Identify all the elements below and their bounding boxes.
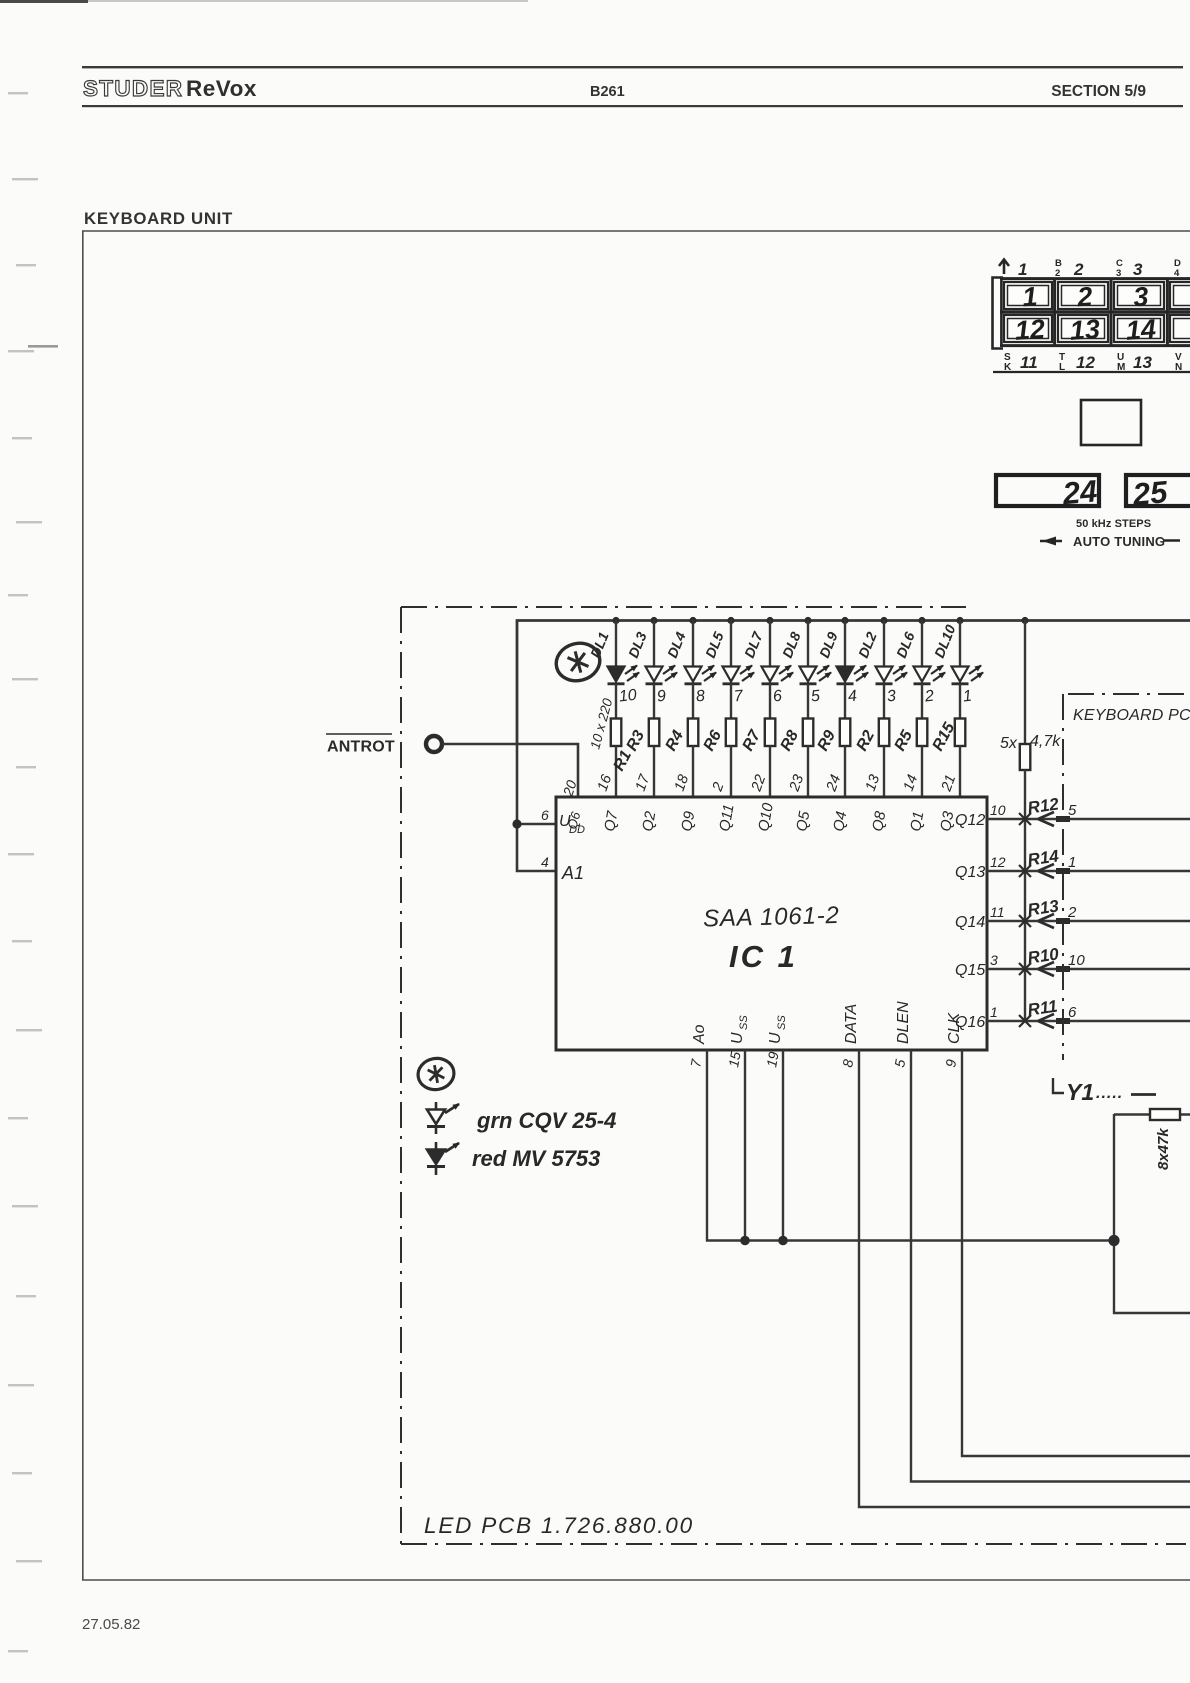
svg-text:R12: R12 [1026, 794, 1060, 817]
svg-text:27.05.82: 27.05.82 [82, 1616, 140, 1633]
key 12 (row 2 col 1) [1004, 315, 1052, 342]
LED PCB boundary (dash-dot) left [400, 607, 402, 1544]
svg-text:5: 5 [810, 688, 821, 706]
svg-text:.....: ..... [1096, 1085, 1123, 1102]
legend red LED symbol [427, 1142, 459, 1175]
svg-text:4,7k: 4,7k [1030, 733, 1061, 750]
svg-text:DL3: DL3 [625, 629, 650, 660]
svg-text:9: 9 [656, 688, 667, 706]
svg-text:ANTROT: ANTROT [327, 739, 395, 756]
LED DL10 with resistor R15, pin 21 [952, 620, 984, 796]
svg-text:14: 14 [1125, 314, 1157, 346]
LED DL5 with resistor R6, pin 2 [723, 620, 755, 796]
node bus junction 9 [918, 617, 925, 624]
svg-text:14: 14 [901, 773, 922, 794]
svg-text:8x47k: 8x47k [1155, 1128, 1172, 1170]
svg-text:R1: R1 [611, 748, 636, 774]
svg-text:R2: R2 [854, 728, 879, 754]
keypad left bracket [993, 278, 1004, 349]
svg-text:18: 18 [672, 773, 693, 794]
svg-text:Q1: Q1 [907, 810, 927, 833]
svg-text:2: 2 [1073, 260, 1084, 279]
svg-text:3: 3 [1132, 281, 1149, 312]
keypad grid frame [1000, 278, 1190, 346]
connector contact arrow [1038, 864, 1054, 878]
svg-text:12: 12 [1014, 314, 1046, 346]
svg-text:19: 19 [763, 1050, 781, 1068]
scan artifact: dark strip top-left [0, 0, 88, 3]
svg-text:Q15: Q15 [955, 962, 985, 979]
svg-text:13: 13 [1069, 314, 1101, 346]
header bottom rule [82, 105, 1183, 107]
svg-text:3: 3 [990, 952, 998, 968]
svg-text:12: 12 [1076, 353, 1095, 372]
resistor 5x4.7k column [1024, 620, 1026, 744]
svg-text:Q10: Q10 [755, 801, 777, 833]
svg-text:8: 8 [695, 688, 706, 706]
junction dot [778, 1236, 788, 1246]
svg-text:8: 8 [839, 1058, 856, 1069]
key 1 (row 1 col 1) [1004, 282, 1052, 309]
LED DL8 with resistor R8, pin 23 [800, 620, 832, 796]
key 13 (row 2 col 2) [1058, 315, 1108, 342]
svg-text:10: 10 [1068, 952, 1085, 969]
wire Q16 row [987, 1020, 1190, 1022]
LED DL7 with resistor R7, pin 22 [762, 620, 794, 796]
key edge (row 2 col 4) [1170, 315, 1190, 342]
svg-text:4: 4 [541, 854, 549, 870]
svg-text:1: 1 [962, 688, 973, 706]
svg-text:Q12: Q12 [955, 812, 985, 829]
junction X mark [1019, 915, 1031, 927]
svg-text:DL6: DL6 [893, 629, 918, 660]
junction X mark [1019, 963, 1031, 975]
svg-text:grn CQV 25-4: grn CQV 25-4 [476, 1108, 616, 1133]
svg-text:6: 6 [1068, 1004, 1077, 1021]
resistor 8x47k [1114, 1113, 1190, 1115]
key 3 (row 1 col 3) [1114, 282, 1164, 309]
connector contact arrow [1038, 1014, 1054, 1028]
svg-text:AUTO TUNING: AUTO TUNING [1073, 534, 1165, 549]
junction dot pin6 branch [512, 819, 521, 828]
svg-text:R7: R7 [740, 727, 765, 754]
svg-text:IC 1: IC 1 [729, 939, 798, 974]
wire USS (pin19) [782, 1050, 784, 1240]
svg-text:2: 2 [1075, 281, 1093, 312]
svg-text:2: 2 [923, 688, 935, 706]
terminal circle ANTROT [426, 736, 442, 752]
svg-text:R4: R4 [663, 728, 688, 754]
svg-text:R10: R10 [1026, 944, 1060, 967]
svg-text:red MV 5753: red MV 5753 [472, 1146, 600, 1171]
svg-text:KEYBOARD UNIT: KEYBOARD UNIT [84, 209, 233, 228]
svg-text:KEYBOARD PCB: KEYBOARD PCB [1073, 707, 1190, 724]
svg-text:SAA 1061-2: SAA 1061-2 [703, 902, 840, 933]
node bus junction 2 [650, 617, 657, 624]
supply bus wire (top) [517, 621, 1190, 745]
svg-text:STUDER: STUDER [83, 76, 183, 101]
svg-text:R9: R9 [815, 728, 840, 754]
wire Q13 row [987, 870, 1190, 872]
junction X mark [1019, 1015, 1031, 1027]
svg-text:Q4: Q4 [830, 810, 850, 833]
svg-text:25: 25 [1130, 474, 1169, 512]
LED PCB boundary (dash-dot) top [401, 606, 966, 608]
svg-text:50 kHz STEPS: 50 kHz STEPS [1076, 518, 1151, 530]
key edge (row 1 col 4) [1170, 282, 1190, 309]
junction X mark [1019, 813, 1031, 825]
svg-text:DL5: DL5 [702, 629, 727, 660]
node bus junction 6 [804, 617, 811, 624]
svg-text:U: U [729, 1032, 746, 1044]
svg-text:DATA: DATA [843, 1004, 860, 1044]
svg-text:6: 6 [772, 688, 783, 706]
junction dot [1108, 1235, 1119, 1246]
LED DL4 with resistor R4, pin 18 [685, 620, 717, 796]
svg-text:7: 7 [733, 688, 745, 706]
svg-text:DL8: DL8 [779, 629, 804, 660]
connector contact arrow [1038, 962, 1054, 976]
svg-text:DL9: DL9 [816, 629, 841, 660]
svg-text:R14: R14 [1026, 846, 1060, 869]
svg-text:Y1: Y1 [1066, 1079, 1094, 1105]
svg-text:DL7: DL7 [741, 628, 766, 660]
svg-text:17: 17 [633, 772, 654, 794]
node bus junction 3 [689, 617, 696, 624]
svg-text:1: 1 [1021, 281, 1038, 312]
svg-text:15: 15 [725, 1050, 743, 1068]
wire DATA (pin8) [859, 1050, 1190, 1507]
header top rule [82, 66, 1183, 68]
svg-text:Q11: Q11 [716, 803, 737, 833]
node bus junction 1 [612, 617, 619, 624]
keypad underline [993, 371, 1190, 373]
svg-text:Q13: Q13 [955, 864, 985, 881]
wire USS (pin15) [744, 1050, 746, 1240]
wire CLK (pin9) [962, 1050, 1190, 1456]
svg-text:2: 2 [1067, 904, 1077, 921]
svg-text:Q16: Q16 [955, 1014, 985, 1031]
node bus junction 4 [727, 617, 734, 624]
corner + Y1 label [1053, 1078, 1064, 1093]
wire ANTROT to IC pin 20 [443, 744, 579, 796]
node bus junction 4.7k [1021, 617, 1028, 624]
svg-text:11: 11 [990, 904, 1005, 920]
LED DL6 with resistor R5, pin 14 [914, 620, 946, 796]
connector contact arrow [1038, 812, 1054, 826]
svg-text:21: 21 [938, 773, 959, 795]
LED PCB boundary (dash-dot) bottom [401, 1543, 1186, 1545]
svg-text:Q14: Q14 [955, 914, 985, 931]
sheet border box [83, 231, 1190, 1580]
svg-text:LED PCB 1.726.880.00: LED PCB 1.726.880.00 [424, 1513, 694, 1538]
connector contact arrow [1038, 914, 1054, 928]
svg-text:A1: A1 [561, 863, 584, 883]
svg-text:SS: SS [776, 1015, 788, 1030]
svg-text:5: 5 [891, 1058, 908, 1069]
LED DL1 with resistor R1, pin 16 [608, 620, 640, 796]
svg-text:Q9: Q9 [678, 809, 698, 832]
svg-text:DLEN: DLEN [895, 1001, 912, 1044]
wire Q12 row [987, 818, 1190, 820]
wire Q15 row [987, 968, 1190, 970]
LED DL9 with resistor R9, pin 24 [837, 620, 869, 796]
svg-text:3: 3 [1133, 260, 1143, 279]
caption AUTO TUNING with arrow [1040, 540, 1062, 543]
svg-text:DL2: DL2 [855, 629, 880, 660]
svg-text:24: 24 [823, 773, 844, 795]
wire DLEN (pin5) [911, 1050, 1190, 1482]
svg-text:9: 9 [942, 1058, 959, 1069]
svg-text:3: 3 [886, 688, 897, 706]
svg-text:Q8: Q8 [869, 809, 889, 832]
svg-text:R8: R8 [778, 728, 803, 754]
key 2 (row 1 col 2) [1058, 282, 1108, 309]
wire A0 (pin7) down and right [707, 1050, 1114, 1241]
svg-text:1: 1 [1018, 260, 1027, 279]
svg-text:B261: B261 [590, 84, 625, 100]
svg-text:R6: R6 [701, 728, 726, 754]
svg-text:5: 5 [1068, 802, 1077, 819]
svg-text:U: U [767, 1032, 784, 1044]
svg-text:23: 23 [786, 773, 807, 795]
svg-text:R13: R13 [1026, 896, 1060, 919]
key 25 box [1126, 475, 1190, 506]
LED DL3 with resistor R3, pin 17 [646, 620, 678, 796]
svg-text:10: 10 [618, 687, 638, 706]
svg-text:5x: 5x [1000, 735, 1018, 752]
circled asterisk marker (at DL1) [552, 638, 604, 685]
node bus junction 10 [956, 617, 963, 624]
legend green LED symbol [427, 1102, 459, 1134]
svg-text:13: 13 [863, 773, 884, 794]
wire 8x47k column [1114, 1114, 1190, 1313]
key column header: arrow up [999, 260, 1009, 275]
circled asterisk marker (legend) [416, 1056, 457, 1093]
svg-text:SECTION 5/9: SECTION 5/9 [1051, 83, 1146, 100]
op IC1 SAA 1061-2 body [556, 797, 987, 1050]
svg-text:1: 1 [990, 1004, 998, 1020]
logo STUDER REVOX [83, 76, 257, 101]
svg-text:6: 6 [541, 807, 549, 823]
wire UDD branch [517, 744, 556, 871]
svg-text:DL10: DL10 [931, 622, 959, 660]
svg-text:Ao: Ao [691, 1024, 708, 1045]
svg-text:7: 7 [687, 1057, 704, 1069]
junction X mark [1019, 865, 1031, 877]
svg-text:SS: SS [738, 1015, 750, 1030]
svg-text:24: 24 [1060, 473, 1098, 511]
KEYBOARD PCB boundary (dash-dot) [1062, 694, 1064, 1060]
svg-text:12: 12 [990, 854, 1006, 870]
svg-text:R3: R3 [624, 728, 649, 754]
key 14 (row 2 col 3) [1114, 315, 1164, 342]
svg-text:2: 2 [709, 780, 727, 794]
node bus junction 5 [766, 617, 773, 624]
wire Q14 row [987, 920, 1190, 922]
svg-text:R5: R5 [892, 727, 917, 754]
wire to pin 6 [517, 823, 556, 826]
junction dot [740, 1236, 750, 1246]
svg-text:10: 10 [990, 802, 1006, 818]
svg-text:11: 11 [1020, 353, 1038, 372]
key 24 box [996, 475, 1099, 506]
LED DL2 with resistor R2, pin 13 [876, 620, 908, 796]
svg-text:22: 22 [748, 773, 769, 795]
svg-text:R11: R11 [1026, 997, 1058, 1020]
svg-text:16: 16 [595, 772, 616, 794]
scan artifacts: left margin ticks [8, 92, 42, 1652]
svg-text:4: 4 [847, 688, 858, 706]
display window box [1081, 400, 1141, 445]
svg-text:Q5: Q5 [793, 809, 813, 832]
svg-text:1: 1 [1068, 854, 1076, 871]
svg-text:DL4: DL4 [664, 629, 689, 660]
svg-text:Q2: Q2 [639, 809, 659, 832]
node bus junction 8 [880, 617, 887, 624]
node bus junction 7 [841, 617, 848, 624]
svg-text:13: 13 [1133, 353, 1152, 372]
svg-text:Q7: Q7 [601, 809, 621, 832]
svg-text:ReVox: ReVox [186, 76, 257, 101]
